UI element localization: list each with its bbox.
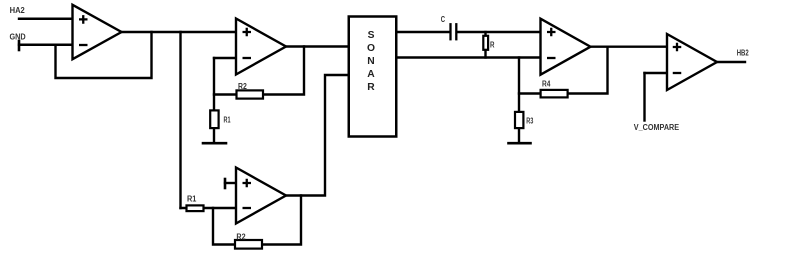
svg-text:R2: R2 [238,81,247,91]
svg-text:N: N [367,56,374,67]
svg-text:HA2: HA2 [10,5,25,15]
svg-text:A: A [367,69,375,80]
svg-text:R4: R4 [542,79,551,89]
svg-text:R: R [490,40,495,50]
svg-text:O: O [367,43,375,54]
svg-text:R: R [367,82,375,93]
svg-text:R3: R3 [526,115,533,125]
svg-text:R1: R1 [224,115,231,125]
svg-text:V_COMPARE: V_COMPARE [634,122,679,132]
svg-text:R1: R1 [187,194,197,204]
svg-text:S: S [368,30,375,41]
svg-text:HB2: HB2 [737,47,749,57]
svg-text:GND: GND [10,31,26,41]
svg-text:C: C [441,14,446,24]
svg-text:R2: R2 [236,232,245,242]
